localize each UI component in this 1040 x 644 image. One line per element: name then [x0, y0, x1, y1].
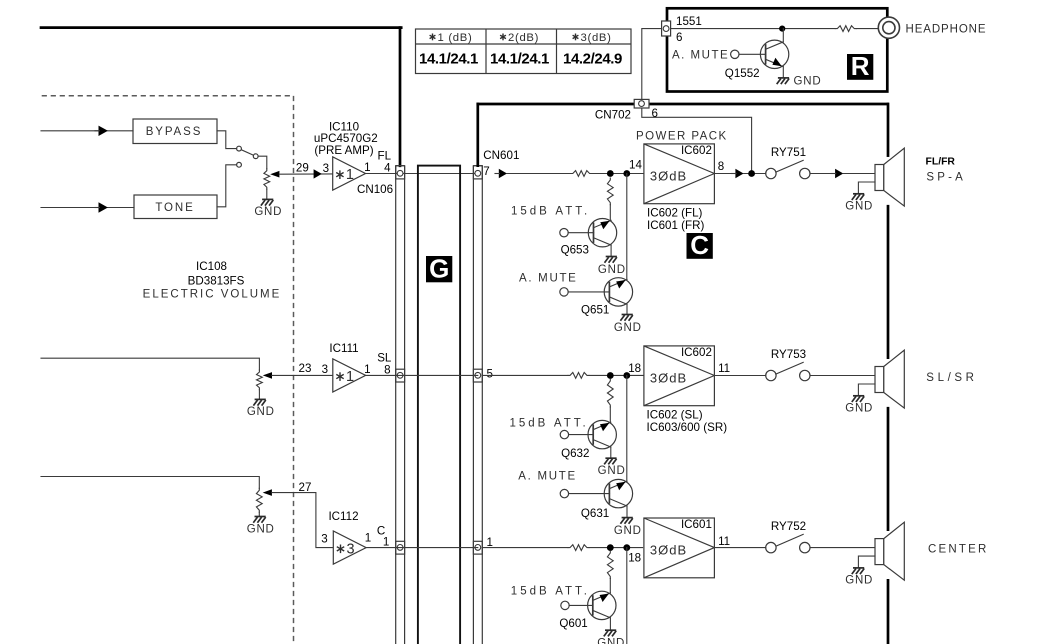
svg-text:SP-A: SP-A — [926, 172, 966, 184]
speaker SP-A FL/FR — [875, 165, 884, 191]
junction node headphone — [779, 26, 785, 32]
wire junction C-B down (A.MUTE feed) — [626, 548, 628, 644]
relay RY751 — [766, 168, 776, 178]
IC108 label — [143, 260, 282, 301]
ground Q653 — [606, 256, 617, 258]
svg-text:14.1/24.1: 14.1/24.1 — [419, 51, 478, 68]
CN106 pin at y=173.5 — [396, 166, 405, 179]
svg-text:15dB ATT.: 15dB ATT. — [510, 418, 589, 430]
ground Q651 — [622, 314, 633, 316]
power pack block right boundary — [887, 104, 890, 644]
svg-text:27: 27 — [299, 481, 312, 494]
resistor R (SL line) — [568, 373, 589, 379]
svg-text:1: 1 — [346, 167, 354, 183]
power amp IC602 (FL) — [644, 144, 715, 204]
connector CN702 — [634, 99, 649, 108]
svg-text:15dB ATT.: 15dB ATT. — [511, 585, 590, 597]
svg-text:3: 3 — [323, 162, 329, 175]
svg-text:3: 3 — [322, 363, 328, 376]
wire FL pot wiper to IC110 pin 3 — [279, 173, 332, 175]
connector CN601 strip — [473, 166, 482, 644]
wire switch to FL volume pot — [258, 156, 267, 169]
svg-text:3ØdB: 3ØdB — [650, 168, 687, 183]
svg-text:8: 8 — [718, 160, 724, 173]
svg-text:CN601: CN601 — [483, 149, 519, 162]
arrow into FL speaker — [835, 169, 843, 178]
svg-text:CENTER: CENTER — [928, 543, 988, 555]
svg-text:1: 1 — [364, 363, 370, 376]
svg-text:4: 4 — [384, 162, 391, 175]
headphone board outline — [667, 8, 887, 91]
svg-text:14.1/24.1: 14.1/24.1 — [490, 51, 549, 68]
wire IC602 pin 8 output — [714, 173, 731, 175]
TONE box — [134, 195, 217, 219]
CN106 pin at y=547.6 — [396, 541, 405, 554]
svg-text:(PRE AMP): (PRE AMP) — [314, 144, 373, 157]
headphone wire to jack — [671, 28, 836, 30]
wire junction FL-B to Q651 — [626, 174, 628, 280]
CN601 pin at y=547.6 — [473, 541, 482, 554]
wire IC602 SL output — [714, 375, 765, 377]
signal arrow into BYPASS — [99, 126, 108, 136]
wire Q1552 emitter to ground — [782, 67, 784, 78]
svg-text:G: G — [429, 254, 449, 284]
wire IC111 output to CN601 (SL) — [366, 374, 478, 376]
wire junction SL-B to Q631 — [626, 376, 628, 482]
C pot wiper arrow — [263, 489, 272, 496]
wire FL pot to ground — [266, 189, 268, 199]
IC110 name labels — [314, 121, 378, 158]
svg-text:29: 29 — [296, 162, 309, 175]
wire relay to SL speaker — [810, 375, 875, 377]
svg-text:A. MUTE: A. MUTE — [519, 273, 578, 285]
CN106 pin at y=375.5 — [396, 369, 405, 382]
wire Q651 to ground — [626, 304, 628, 314]
CN601 pin at y=375.5 — [473, 369, 482, 382]
svg-text:IC602 (SL): IC602 (SL) — [647, 409, 703, 422]
ground Q631 — [622, 517, 633, 519]
svg-text:IC601: IC601 — [681, 518, 712, 531]
svg-text:3(dB): 3(dB) — [581, 32, 612, 44]
svg-text:15dB ATT.: 15dB ATT. — [511, 206, 590, 218]
transistor Q632 — [588, 420, 616, 448]
FL pot wiper arrow — [270, 171, 279, 178]
svg-text:RY751: RY751 — [771, 146, 806, 159]
wire BYPASS to switch — [217, 131, 237, 149]
attenuator resistor (FL) — [607, 178, 613, 205]
svg-text:2(dB): 2(dB) — [508, 32, 539, 44]
wire input to TONE — [41, 207, 134, 209]
svg-text:GND: GND — [845, 201, 873, 213]
wire to relay RY751 — [744, 173, 766, 175]
svg-text:FL/FR: FL/FR — [926, 157, 956, 168]
wire resistor to Q632 — [609, 407, 611, 422]
svg-text:IC602 (FL): IC602 (FL) — [647, 207, 703, 220]
wire input C — [41, 477, 259, 489]
ground below FL pot — [262, 198, 273, 200]
svg-text:R: R — [851, 51, 870, 81]
junction node FL-A — [607, 170, 614, 177]
SL volume pot R — [257, 370, 263, 390]
Q631 base terminal — [560, 489, 568, 497]
wire arrow to FL speaker — [843, 173, 875, 175]
svg-text:1 (dB): 1 (dB) — [438, 32, 473, 44]
wire base Q651 — [568, 291, 609, 293]
wire Q632 to ground — [610, 447, 612, 458]
svg-text:A. MUTE: A. MUTE — [672, 49, 729, 61]
BYPASS box — [133, 119, 217, 144]
wire IC601 output — [714, 547, 765, 549]
svg-text:IC602: IC602 — [681, 346, 712, 359]
svg-text:3: 3 — [347, 541, 355, 557]
power amp IC601 (C) — [644, 518, 715, 578]
svg-text:11: 11 — [718, 535, 730, 548]
signal arrow into TONE — [99, 202, 108, 212]
transistor Q651 — [604, 278, 632, 306]
svg-text:GND: GND — [598, 264, 626, 276]
svg-text:1: 1 — [365, 532, 371, 545]
arrow FL output — [735, 169, 743, 178]
svg-text:1551: 1551 — [676, 15, 702, 28]
svg-text:7: 7 — [483, 165, 489, 178]
ribbon cable G block — [418, 166, 460, 644]
svg-text:BD3813FS: BD3813FS — [188, 274, 245, 287]
attenuator resistor (SL) — [607, 379, 613, 407]
svg-text:1: 1 — [346, 369, 354, 385]
svg-text:RY752: RY752 — [771, 520, 806, 533]
arrow after CN601 pin 7 — [499, 169, 507, 178]
wire Q653 to ground — [610, 245, 612, 256]
marker G — [426, 254, 452, 284]
SL pot wiper arrow — [263, 372, 272, 379]
wire input SL — [41, 358, 259, 370]
wire CN601 to attenuator resistor (SL) — [482, 374, 568, 376]
transistor Q631 — [604, 479, 632, 507]
pre-amp IC112 — [333, 531, 366, 564]
electric volume block dashed boundary — [42, 96, 294, 644]
svg-text:GND: GND — [614, 322, 642, 334]
speaker SL/SR — [875, 367, 884, 393]
wire from top rail down to CN106 — [399, 28, 402, 166]
svg-text:GND: GND — [254, 206, 282, 218]
transistor Q601 — [588, 591, 616, 619]
wire base Q632 — [569, 434, 594, 436]
svg-text:23: 23 — [299, 362, 312, 375]
junction node FL-B — [623, 170, 630, 177]
svg-text:Q632: Q632 — [561, 447, 589, 460]
svg-text:IC111: IC111 — [329, 342, 358, 355]
svg-text:SL/SR: SL/SR — [926, 372, 977, 384]
wire base Q653 — [568, 232, 593, 234]
wire base Q601 — [569, 604, 593, 606]
switch common contact — [253, 154, 258, 159]
switch contact from BYPASS — [237, 146, 242, 151]
wire Q601 to ground — [609, 618, 611, 630]
junction node SL-B — [623, 372, 630, 379]
resistor R (headphone) — [835, 26, 856, 32]
wire C pot wiper to IC112 — [272, 493, 333, 548]
wire relay to speaker arrow (FL) — [810, 173, 833, 175]
wire input to BYPASS — [41, 130, 133, 132]
wire TONE to switch — [217, 165, 237, 207]
svg-text:A. MUTE: A. MUTE — [518, 470, 577, 482]
svg-text:1: 1 — [364, 161, 370, 174]
svg-text:IC108: IC108 — [196, 260, 227, 273]
svg-text:Q631: Q631 — [581, 507, 609, 520]
wire resistor to Q601 — [609, 579, 611, 593]
wire resistor to Q653 — [609, 205, 611, 221]
junction node C-B — [623, 544, 630, 551]
svg-text:GND: GND — [794, 76, 822, 88]
svg-text:BYPASS: BYPASS — [146, 126, 203, 138]
Q632 base terminal — [560, 430, 568, 438]
ground Q1552 — [778, 77, 789, 79]
ground below C pot — [255, 516, 266, 518]
marker C — [687, 230, 713, 260]
svg-text:Q653: Q653 — [561, 243, 589, 256]
svg-text:14.2/24.9: 14.2/24.9 — [563, 51, 622, 68]
svg-text:GND: GND — [614, 525, 642, 537]
svg-text:POWER PACK: POWER PACK — [636, 131, 728, 143]
svg-text:GND: GND — [598, 465, 626, 477]
svg-text:18: 18 — [628, 552, 641, 565]
svg-text:18: 18 — [628, 362, 641, 375]
svg-text:3: 3 — [321, 533, 327, 546]
svg-text:Q601: Q601 — [559, 617, 587, 630]
svg-text:3ØdB: 3ØdB — [650, 542, 687, 557]
svg-text:GND: GND — [597, 638, 625, 644]
wire Q631 to ground — [626, 506, 628, 518]
wire SL pot wiper to IC111 — [272, 374, 333, 376]
junction node SL-A — [607, 372, 614, 379]
svg-text:C: C — [690, 230, 709, 260]
junction node C-A — [607, 544, 614, 551]
svg-text:GND: GND — [845, 403, 873, 415]
headphone jack J — [878, 17, 899, 38]
gain table — [416, 29, 632, 74]
svg-text:6: 6 — [652, 107, 658, 120]
marker R — [847, 51, 873, 81]
relay RY752 — [766, 542, 776, 552]
Q653 base terminal — [560, 229, 568, 237]
ground below SL pot — [255, 398, 266, 400]
svg-text:1: 1 — [383, 535, 389, 548]
ground Q632 — [605, 457, 616, 459]
svg-text:GND: GND — [247, 406, 275, 418]
Q651 base terminal — [560, 288, 568, 296]
Q601 base terminal — [561, 601, 569, 609]
connector CN106 strip — [396, 166, 405, 644]
wire relay to C speaker — [810, 547, 875, 549]
top rail wire — [41, 26, 401, 29]
wire IC112 output to CN601 (C) — [366, 547, 478, 549]
resistor R (FL line) — [571, 171, 592, 177]
svg-text:IC112: IC112 — [328, 510, 358, 523]
wire resistor to jack — [856, 28, 878, 30]
C volume pot R — [256, 488, 262, 512]
svg-text:6: 6 — [676, 31, 682, 44]
svg-text:11: 11 — [718, 362, 730, 375]
svg-text:ELECTRIC VOLUME: ELECTRIC VOLUME — [143, 288, 282, 300]
attenuator resistor (C) — [607, 551, 613, 579]
svg-text:HEADPHONE: HEADPHONE — [906, 23, 987, 35]
svg-text:IC602: IC602 — [681, 144, 712, 157]
ground Q601 — [605, 629, 616, 631]
headphone feed wire (1551 to FL output) — [642, 29, 752, 170]
svg-text:GND: GND — [247, 523, 275, 535]
svg-text:RY753: RY753 — [771, 348, 806, 361]
svg-text:CN106: CN106 — [357, 183, 393, 196]
svg-text:Q651: Q651 — [581, 303, 609, 316]
wire resistor to IC602 (FL) — [592, 173, 644, 175]
wire IC110 output to CN601 (FL) — [366, 173, 478, 175]
FL volume pot R (resistor) — [264, 169, 270, 190]
wire resistor to IC601 (C) — [589, 547, 643, 549]
connector 1551 — [662, 21, 671, 36]
wire resistor to IC602 (SL) — [589, 374, 644, 376]
switch arm — [241, 150, 253, 155]
pre-amp IC110 — [333, 157, 366, 190]
wire Q1552 collector to junction — [782, 29, 784, 42]
svg-text:GND: GND — [845, 575, 873, 587]
svg-text:IC603/600 (SR): IC603/600 (SR) — [647, 421, 728, 434]
wire CN601 to attenuator resistor (C) — [482, 547, 568, 549]
wire SL pot to ground — [258, 390, 260, 400]
wire CN601 to attenuator resistor (FL) — [507, 173, 571, 175]
pre-amp IC111 — [333, 359, 366, 392]
svg-text:TONE: TONE — [155, 202, 194, 214]
A. MUTE terminal (headphone) — [731, 50, 739, 58]
arrow on wire to IC110 — [314, 169, 322, 178]
power pack block top boundary — [478, 103, 888, 106]
svg-text:5: 5 — [487, 367, 493, 380]
relay RY753 — [766, 370, 776, 380]
svg-text:Q1552: Q1552 — [725, 67, 760, 80]
junction node FL output — [748, 170, 755, 177]
wire A.MUTE to Q1552 base — [739, 53, 766, 55]
CN601 pin at y=173.5 — [473, 166, 482, 179]
power amp IC602 (SL) — [644, 346, 715, 406]
svg-text:14: 14 — [629, 159, 642, 172]
transistor Q653 — [588, 219, 616, 247]
speaker CENTER — [875, 539, 884, 565]
transistor Q1552 — [760, 40, 788, 68]
switch contact from TONE — [237, 162, 242, 167]
wire C pot to ground — [258, 512, 260, 516]
resistor R (C line) — [568, 545, 589, 551]
svg-text:3ØdB: 3ØdB — [650, 370, 687, 385]
wire base Q631 — [569, 493, 610, 495]
svg-text:CN702: CN702 — [595, 108, 631, 121]
svg-text:8: 8 — [384, 363, 390, 376]
power pack block left boundary drop — [476, 104, 479, 166]
